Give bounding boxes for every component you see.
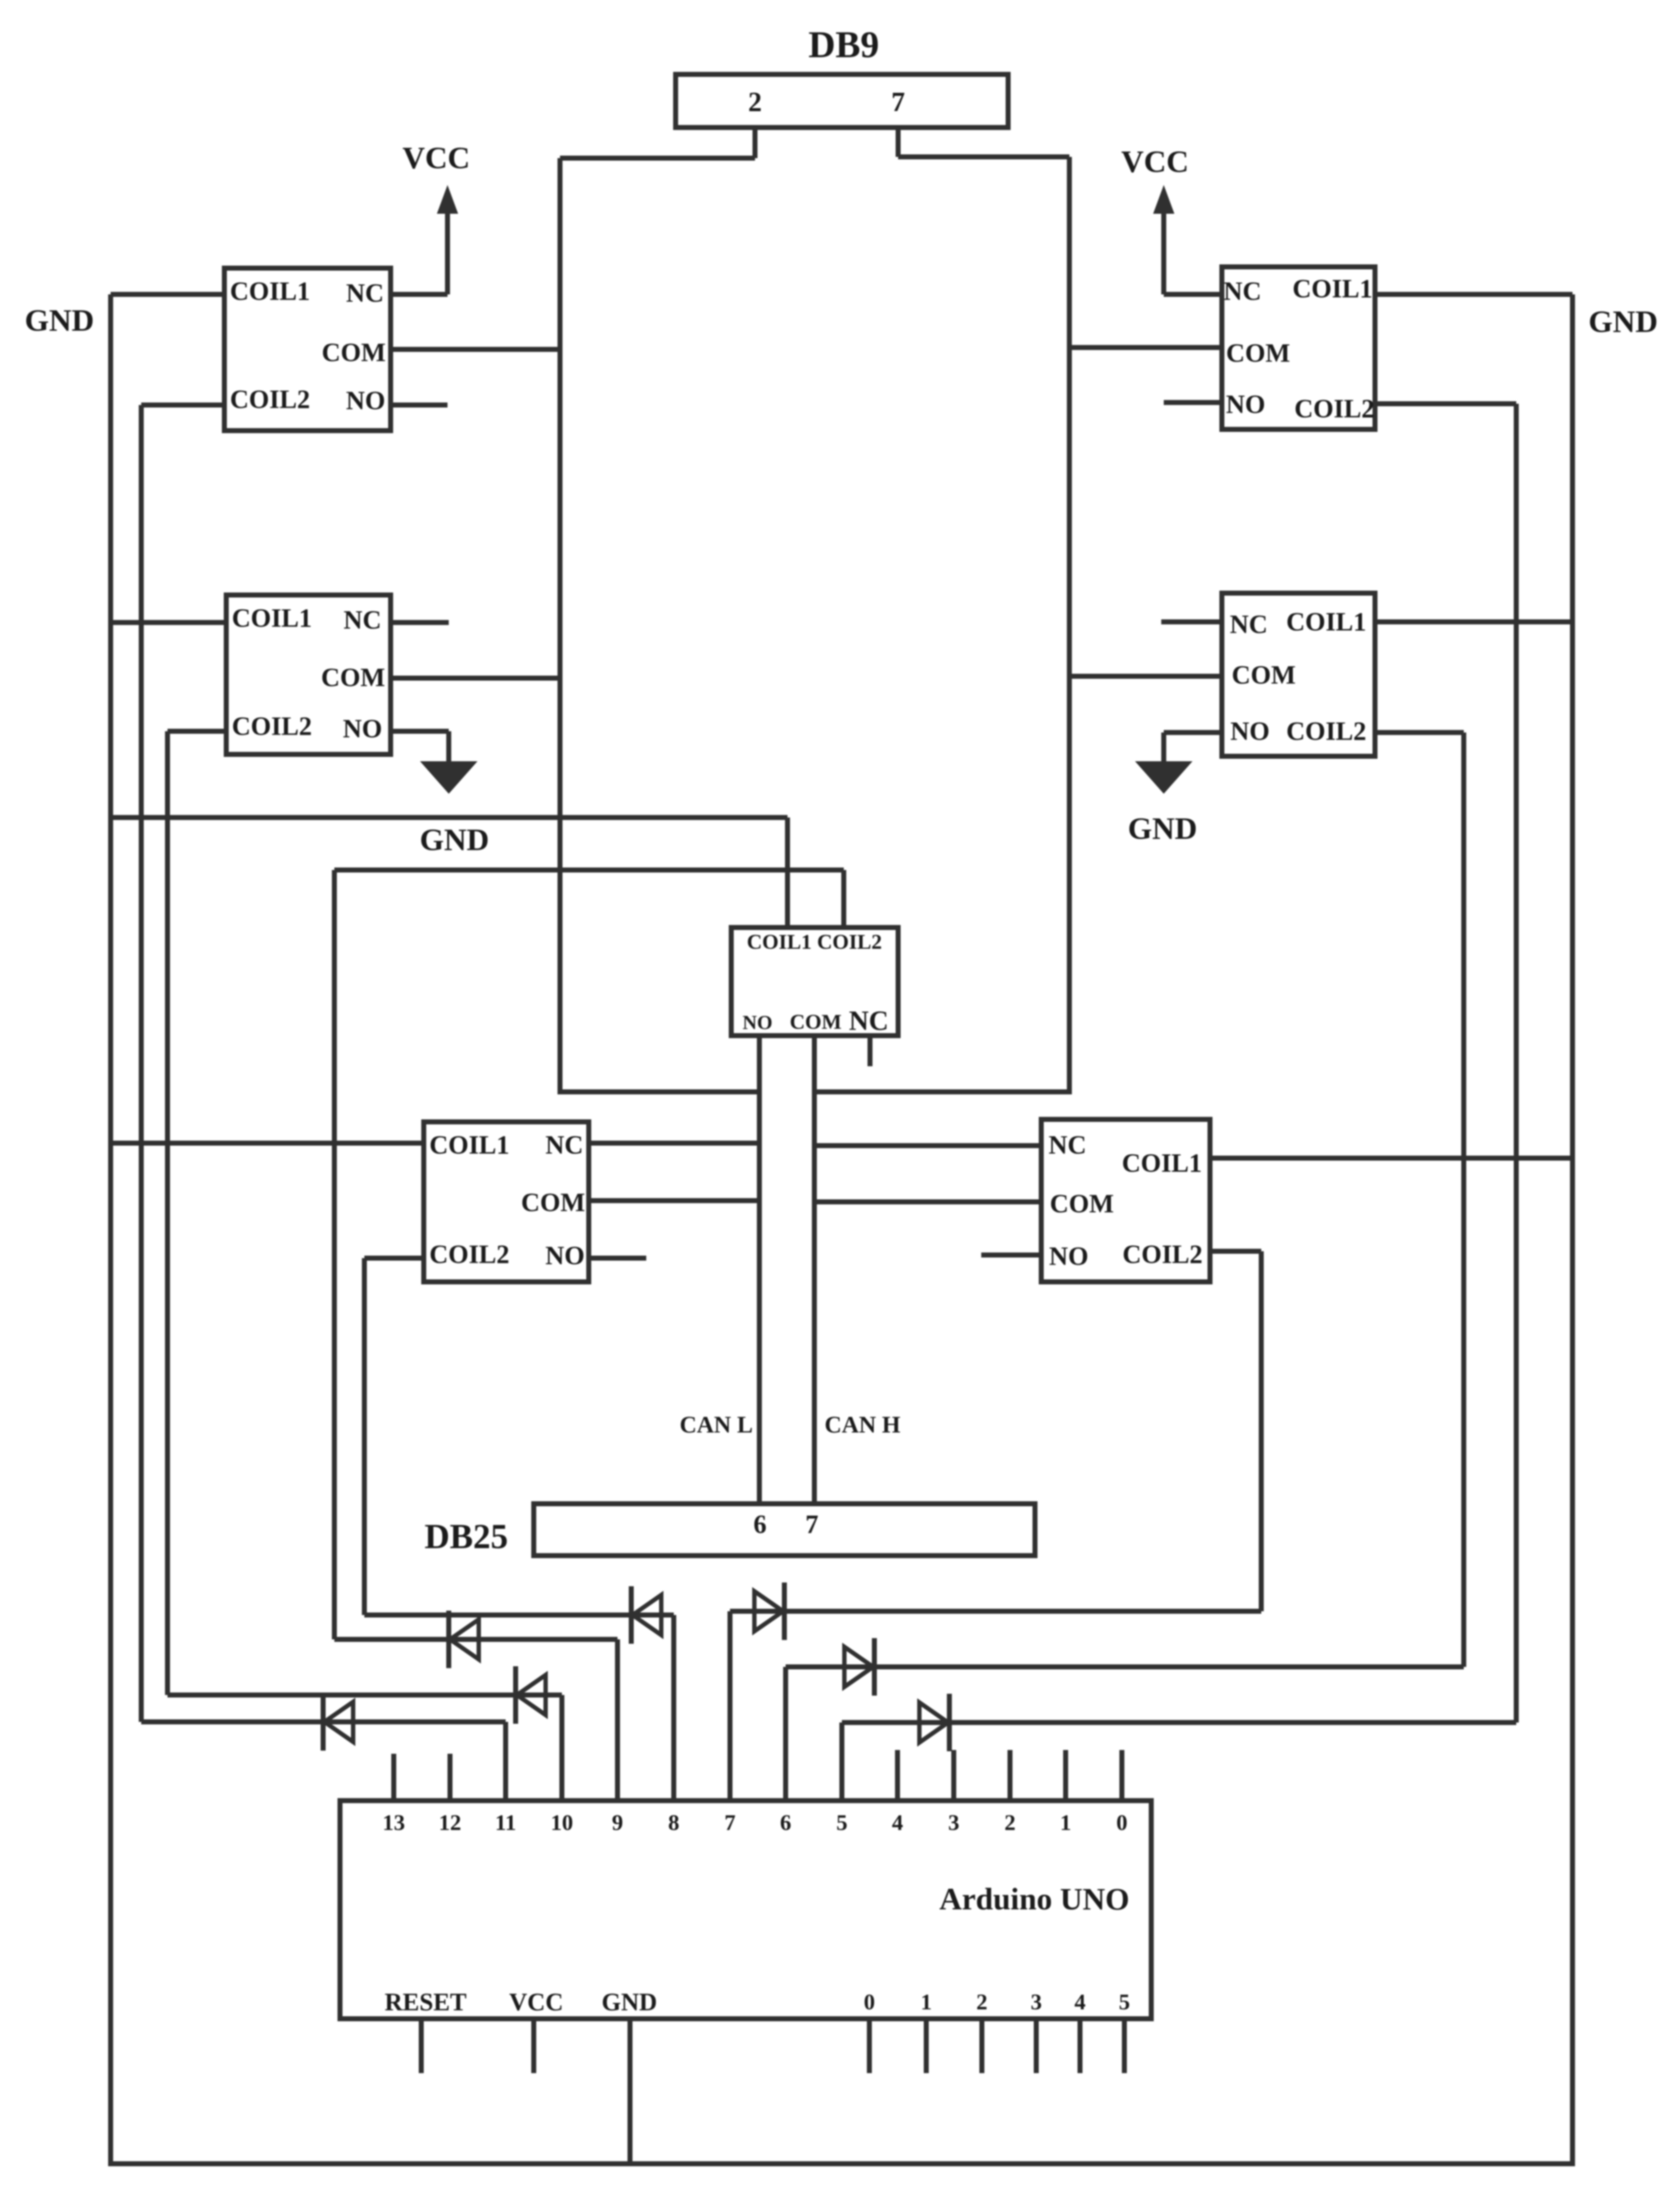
wire relay K2 NC to VCC — [1164, 292, 1219, 297]
label K5 COM — [789, 1011, 841, 1034]
label GND top right — [1588, 303, 1657, 339]
wire arduino pin10 wire — [559, 1695, 564, 1798]
relay K1 — [222, 266, 393, 433]
diode D4 — [629, 1586, 666, 1644]
label arduino digital pin 7 — [724, 1809, 736, 1836]
wire relay K6 NO stub — [591, 1256, 646, 1261]
wire DB9 pin7 to junction — [898, 154, 1069, 159]
label GND mid left — [419, 821, 489, 857]
wire relay K3 COIL1 to GND — [111, 620, 224, 625]
wire relay K1 COIL2 drop — [139, 405, 144, 1722]
label arduino RESET — [384, 1987, 466, 2017]
label K7 COIL1 — [1122, 1149, 1202, 1179]
wire relay K6 NC to CAN L — [591, 1141, 759, 1146]
label arduino analog pin 4 — [1074, 1989, 1086, 2015]
wire arduino pin1 stub — [1063, 1750, 1068, 1798]
wire arduino pin6 wire — [783, 1667, 788, 1798]
wire relay K3 COIL2 drop — [165, 731, 170, 1695]
wire relay K6 COIL2 drop — [362, 1258, 367, 1615]
wire relay K4 COM to net — [1069, 674, 1219, 679]
label VCC right — [1121, 143, 1189, 179]
label GND top left — [24, 302, 94, 338]
wire DB9 pin2 to junction — [560, 156, 755, 161]
wire GND right top — [1377, 292, 1572, 297]
label arduino analog pin 1 — [921, 1989, 932, 2015]
wire relay K7 COIL2 drop — [1259, 1251, 1264, 1611]
wire relay K7 NO stub — [981, 1252, 1039, 1257]
wire relay K3 NC stub — [393, 620, 449, 625]
label K7 NC — [1049, 1131, 1087, 1161]
label K6 COM — [521, 1188, 586, 1218]
wire diode D5 wire — [730, 1609, 1261, 1614]
wire diode D6 wire — [786, 1664, 1464, 1669]
wire relay K6 COIL2 — [364, 1256, 421, 1261]
label K6 COIL2 — [429, 1240, 509, 1270]
wire relay K7 NC to CAN H — [814, 1143, 1039, 1148]
wire arduino analog pin A4 stub — [1077, 2021, 1082, 2073]
label arduino digital pin 8 — [668, 1809, 679, 1836]
wire arduino analog pin A1 stub — [924, 2021, 929, 2073]
label K6 NO — [546, 1241, 585, 1271]
wire VCC left shaft — [445, 206, 450, 294]
wire arduino pin11 wire — [503, 1722, 508, 1798]
wire relay K2 COIL2 drop — [1514, 404, 1519, 1722]
wire relay K1 NO stub — [393, 402, 447, 407]
wire relay K4 COIL2 — [1377, 730, 1464, 735]
diode D7 — [914, 1694, 952, 1751]
label arduino analog pin 3 — [1031, 1989, 1042, 2015]
label CAN H — [824, 1411, 900, 1439]
label K6 COIL1 — [429, 1131, 509, 1161]
wire arduino VCC stub — [531, 2021, 536, 2073]
wire GND to center relay COIL1 — [111, 815, 787, 820]
wire arduino pin9 wire — [615, 1639, 620, 1798]
label K1 COM — [322, 338, 386, 368]
diode D1 — [321, 1693, 358, 1751]
wire junction to center relay COM — [814, 1089, 1069, 1094]
label K7 COM — [1050, 1189, 1114, 1219]
wire diode D3 wire — [334, 1637, 617, 1642]
wire DB9 pin2 stub — [752, 130, 757, 158]
wire relay K1 NC to VCC — [393, 292, 447, 297]
label K4 NO — [1231, 717, 1270, 747]
wire arduino pin13 stub — [391, 1754, 396, 1798]
label K4 NC — [1230, 610, 1268, 640]
relay K3 — [224, 592, 393, 757]
wire relay K6 COM to CAN L — [591, 1198, 759, 1203]
wire relay K4 COIL1 to GND — [1377, 619, 1572, 624]
diode D6 — [839, 1638, 877, 1696]
wire net to center relay COIL2 — [334, 867, 844, 872]
label DB25 — [424, 1517, 508, 1557]
wire GND left top — [111, 292, 222, 297]
label arduino digital pin 0 — [1116, 1809, 1127, 1836]
wire arduino analog pin A5 stub — [1122, 2021, 1127, 2073]
label arduino GND — [602, 1987, 657, 2017]
wire relay K3 NO — [393, 729, 449, 734]
label arduino digital pin 4 — [892, 1809, 903, 1836]
label K2 COM — [1226, 339, 1291, 369]
wire arduino pin5 wire — [839, 1722, 844, 1798]
label arduino analog pin 2 — [976, 1989, 987, 2015]
relay K5 center — [729, 925, 901, 1038]
label K7 NO — [1049, 1242, 1089, 1272]
label arduino digital pin 13 — [382, 1809, 405, 1836]
label K5 NC — [849, 1005, 889, 1037]
wire center relay COIL1 drop — [785, 817, 790, 927]
wire relay K4 COIL2 drop — [1461, 732, 1466, 1667]
wire relay K3 COM to net — [393, 676, 560, 681]
label K2 NO — [1226, 390, 1266, 420]
wire relay K7 COIL1 to GND — [1212, 1156, 1572, 1161]
label K2 COIL1 — [1292, 274, 1372, 304]
label K5 NO — [742, 1011, 772, 1034]
ground symbol left mid — [420, 761, 477, 796]
wire diode D2 wire — [167, 1692, 562, 1697]
relay K4 — [1219, 591, 1377, 759]
label arduino digital pin 2 — [1004, 1809, 1016, 1836]
wire arduino pin12 stub — [447, 1754, 452, 1798]
wire arduino analog pin A2 stub — [979, 2021, 984, 2073]
wire arduino analog pin A0 stub — [867, 2021, 872, 2073]
label DB9 pin 7 — [891, 86, 905, 118]
relay K7 — [1039, 1117, 1212, 1284]
label K1 NO — [346, 386, 386, 416]
wire relay K3 NO drop — [446, 731, 451, 764]
label K1 NC — [346, 279, 384, 309]
wire diode D4 wire — [364, 1612, 674, 1617]
label arduino VCC — [509, 1987, 564, 2017]
label arduino digital pin 10 — [551, 1809, 573, 1836]
wire relay K1 COM to net — [393, 347, 560, 352]
relay K2 — [1219, 264, 1377, 432]
label K2 NC — [1224, 277, 1262, 307]
wire relay K1 COIL2 — [141, 402, 222, 407]
label VCC left — [402, 139, 470, 176]
wire arduino RESET stub — [419, 2021, 424, 2073]
wire arduino pin3 stub — [951, 1750, 956, 1798]
wire arduino pin0 stub — [1119, 1750, 1124, 1798]
wire relay K2 COM to net — [1069, 345, 1219, 350]
wire DB9 pin7 stub — [896, 130, 901, 157]
label DB25 pin 6 — [754, 1510, 767, 1540]
label Arduino UNO — [939, 1881, 1129, 1917]
label K3 NC — [344, 606, 382, 636]
wire relay K4 NO — [1164, 730, 1219, 735]
wire arduino analog pin A3 stub — [1034, 2021, 1039, 2073]
label K3 COIL1 — [232, 604, 312, 634]
wire diode D7 wire — [842, 1720, 1516, 1725]
label K1 COIL2 — [230, 385, 310, 415]
label arduino digital pin 3 — [948, 1809, 959, 1836]
diode D2 — [513, 1666, 551, 1724]
label arduino digital pin 1 — [1060, 1809, 1071, 1836]
VCC arrow left — [437, 185, 458, 225]
wire CAN H line — [812, 1036, 817, 1501]
label GND mid right — [1127, 810, 1197, 846]
label K6 NC — [546, 1131, 584, 1161]
diode D3 — [446, 1611, 484, 1668]
wire relay K2 NO stub — [1164, 400, 1219, 405]
wire relay K4 NC stub — [1161, 619, 1219, 624]
wire DB9 pin7 drop — [1067, 157, 1072, 1094]
label K4 COM — [1232, 661, 1296, 691]
label K3 NO — [343, 714, 382, 744]
label K2 COIL2 — [1294, 394, 1374, 424]
label arduino digital pin 12 — [439, 1809, 461, 1836]
wire relay K3 COIL2 — [167, 729, 224, 734]
label arduino digital pin 9 — [612, 1809, 623, 1836]
wire VCC right shaft — [1161, 206, 1166, 294]
connector DB25 — [531, 1501, 1037, 1558]
label K5 coils — [747, 931, 882, 954]
wire arduino pin2 stub — [1007, 1750, 1012, 1798]
ground symbol right mid — [1135, 761, 1192, 796]
label arduino digital pin 5 — [836, 1809, 847, 1836]
wire arduino pin7 wire — [727, 1611, 732, 1798]
label arduino digital pin 6 — [780, 1809, 791, 1836]
label K4 COIL1 — [1286, 607, 1366, 637]
label CAN L — [679, 1411, 752, 1439]
wire GND left bus — [108, 294, 113, 2166]
label arduino digital pin 11 — [495, 1809, 516, 1836]
wire relay K7 COIL2 — [1212, 1249, 1261, 1254]
wire junction to center relay NO — [560, 1089, 759, 1094]
wire GND right bus — [1570, 294, 1575, 2166]
wire arduino GND to rail — [627, 2021, 632, 2164]
wire relay K4 NO drop — [1161, 732, 1166, 764]
wire arduino pin4 stub — [895, 1750, 900, 1798]
label DB9 — [808, 24, 879, 67]
wire relay K2 COIL2 — [1377, 401, 1516, 406]
wire diode D1 wire — [141, 1719, 506, 1724]
VCC arrow right — [1153, 185, 1174, 225]
label DB25 pin 7 — [806, 1510, 819, 1540]
label DB9 pin 2 — [748, 86, 762, 118]
wire relay K6 COIL1 to GND — [111, 1141, 421, 1146]
relay K6 — [421, 1119, 591, 1284]
wire relay K7 COM to CAN H — [814, 1199, 1039, 1204]
wire arduino pin8 wire — [671, 1615, 676, 1798]
wire GND bottom rail — [111, 2161, 1572, 2166]
Arduino UNO board — [337, 1798, 1154, 2021]
connector DB9 — [673, 72, 1011, 130]
diode D5 — [749, 1582, 787, 1640]
wire DB9 pin2 drop — [557, 158, 562, 1094]
label K4 COIL2 — [1286, 717, 1366, 747]
wire center COIL2 net drop — [332, 870, 337, 1639]
label arduino analog pin 5 — [1119, 1989, 1130, 2015]
label K1 COIL1 — [230, 277, 310, 307]
wire CAN L line — [757, 1036, 762, 1501]
label K3 COM — [321, 663, 386, 693]
wire center relay COIL2 drop — [841, 870, 846, 927]
wire center relay NC stub — [867, 1036, 872, 1066]
label arduino analog pin 0 — [864, 1989, 875, 2015]
label K7 COIL2 — [1122, 1240, 1202, 1270]
label K3 COIL2 — [232, 712, 312, 742]
